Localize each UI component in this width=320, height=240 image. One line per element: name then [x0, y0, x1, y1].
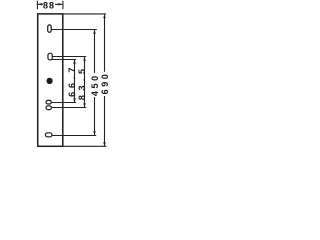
extension line from hole H2 center to 83.5: [52, 56, 86, 58]
dim 88 right tick: [62, 1, 64, 9]
svg-text:450: 450: [90, 73, 100, 96]
dim 66.7 bottom arrowhead: [73, 98, 76, 102]
fixture body outline: [38, 14, 63, 146]
dim 83.5 top arrowhead: [83, 57, 86, 61]
knockout dot (filled circle): [46, 78, 52, 84]
dim 690 line lower segment: [104, 96, 106, 146]
extension line from bottom edge to 690: [63, 145, 106, 147]
extension line from hole pair upper to 66.7: [51, 102, 76, 104]
extension line from hole pair lower to 83.5: [51, 107, 86, 109]
dim 450 line lower segment: [94, 97, 96, 136]
extension line from hole H1 to 450: [51, 29, 97, 31]
dim 690 bottom arrowhead: [103, 142, 106, 146]
dim 88 line right segment: [55, 3, 62, 5]
extension line from top edge to 690: [63, 13, 106, 15]
dim 690 top arrowhead: [103, 14, 106, 18]
mounting hole H1 (vertical slot, top): [48, 25, 52, 32]
dim 450 top arrowhead: [93, 30, 96, 34]
svg-text:83.5: 83.5: [77, 65, 87, 101]
dim 450 bottom arrowhead: [93, 131, 96, 135]
extension line from hole H5 to 450: [52, 135, 96, 137]
dim 450 line upper segment: [94, 30, 96, 74]
bottom hole H5 (horizontal slot): [45, 133, 52, 137]
mounting hole H2 (vertical slot, upper middle): [48, 53, 52, 60]
dim 66.7 line: [74, 60, 76, 103]
dim 88 line left segment: [38, 3, 43, 5]
dim 83.5 bottom arrowhead: [83, 103, 86, 107]
dim 66.7 top arrowhead: [73, 60, 76, 64]
svg-text:88: 88: [43, 0, 55, 10]
dim 690 line upper segment: [104, 14, 106, 72]
hole pair upper (horizontal slot): [46, 100, 51, 104]
dim 83.5 line: [84, 57, 86, 108]
dim 88 left tick: [36, 1, 38, 9]
hole pair lower (horizontal slot): [46, 106, 51, 110]
extension line from hole H2 bottom to 66.7: [52, 59, 76, 61]
dim 88 right arrowhead: [58, 3, 62, 6]
svg-text:690: 690: [100, 72, 110, 95]
dim 88 left arrowhead: [38, 3, 42, 6]
svg-text:66.7: 66.7: [67, 64, 77, 97]
